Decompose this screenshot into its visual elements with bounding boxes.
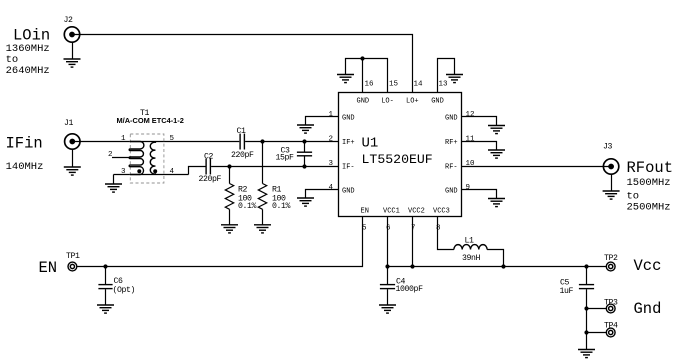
svg-text:RFout: RFout — [627, 159, 674, 177]
junction at pin16 top — [360, 56, 364, 60]
svg-text:VCC1: VCC1 — [383, 208, 400, 216]
ground at J2 — [64, 59, 81, 67]
label 1360MHz to 2640MHz — [6, 43, 50, 77]
svg-text:2500MHz: 2500MHz — [627, 202, 671, 214]
ground at Vcc filter — [578, 350, 595, 358]
svg-text:140MHz: 140MHz — [6, 161, 44, 173]
svg-text:to: to — [627, 190, 640, 202]
svg-text:(Opt): (Opt) — [113, 285, 136, 295]
wire T1 pin3 ground stem — [113, 175, 115, 184]
wire C1 to IC pin 2 — [245, 141, 338, 143]
svg-text:2: 2 — [329, 136, 334, 144]
svg-text:TP1: TP1 — [66, 252, 80, 261]
wire RF- pin 10 to J3 — [462, 166, 612, 168]
svg-text:TP2: TP2 — [604, 254, 618, 263]
svg-text:2: 2 — [108, 151, 113, 159]
wire R1 lead — [262, 142, 264, 184]
wire pin 11 to ground — [462, 142, 497, 150]
svg-text:15: 15 — [389, 81, 399, 89]
wire EN net TP1 to pin 5 — [77, 217, 363, 267]
svg-text:R2: R2 — [238, 186, 248, 195]
capacitor C5 — [579, 267, 594, 309]
ground at pin 11 — [488, 150, 505, 158]
svg-text:220pF: 220pF — [231, 151, 254, 160]
wire T1 pin 2 stub — [112, 157, 131, 159]
wire pin 1 to ground — [306, 117, 339, 125]
svg-text:IFin: IFin — [6, 135, 43, 153]
svg-text:220pF: 220pF — [199, 175, 222, 184]
ground at J3 — [603, 191, 620, 199]
wire R2 to ground — [229, 209, 231, 224]
svg-text:2640MHz: 2640MHz — [6, 65, 50, 77]
ground at T1 pin 3 — [105, 184, 122, 192]
junction TP3 — [584, 306, 588, 310]
connector J2 LOin — [64, 16, 80, 42]
junction L1 at rail — [501, 264, 505, 268]
svg-text:0.1%: 0.1% — [238, 202, 257, 211]
capacitor C4 — [380, 267, 395, 305]
svg-text:39nH: 39nH — [462, 254, 481, 263]
svg-text:12: 12 — [466, 111, 475, 119]
svg-text:RF+: RF+ — [445, 139, 458, 147]
svg-text:0.1%: 0.1% — [272, 202, 291, 211]
transformer T1 dashed box — [130, 134, 164, 183]
svg-text:LT5520EUF: LT5520EUF — [362, 152, 433, 167]
svg-text:4: 4 — [170, 168, 175, 176]
svg-text:Vcc: Vcc — [634, 257, 662, 275]
svg-text:LO+: LO+ — [406, 97, 419, 105]
svg-text:GND: GND — [445, 188, 458, 196]
wire J1 to ground stem — [72, 149, 74, 166]
wire TP3 to TP4 — [586, 309, 588, 333]
wire R1 to ground — [262, 209, 264, 224]
ground at pin 9 — [488, 199, 505, 207]
wire pin 4 to ground — [306, 190, 339, 198]
svg-text:TP3: TP3 — [604, 299, 618, 308]
svg-text:GND: GND — [342, 188, 355, 196]
wire TP4 to ground — [586, 333, 588, 350]
wire IF+ top line J1 to C1 — [72, 141, 239, 143]
svg-text:8: 8 — [436, 225, 441, 233]
inductor L1 — [454, 245, 487, 250]
wire pin 6 stub — [387, 217, 389, 267]
svg-text:L1: L1 — [465, 237, 475, 246]
test point TP2 — [604, 254, 618, 271]
svg-text:M/A-COM ETC4-1-2: M/A-COM ETC4-1-2 — [117, 116, 184, 125]
junction C5 top — [584, 264, 588, 268]
svg-text:7: 7 — [411, 225, 416, 233]
svg-text:GND: GND — [357, 97, 370, 105]
test point TP1 — [66, 252, 80, 271]
svg-text:C6: C6 — [114, 277, 124, 286]
svg-text:4: 4 — [329, 184, 334, 192]
wire pin 8 to L1 — [438, 217, 454, 250]
wire pin16/15 gnd net — [346, 59, 388, 93]
resistor R1 — [258, 184, 266, 210]
label R1 — [272, 186, 291, 212]
ground at C4 — [379, 305, 396, 313]
ground at pin 4 — [297, 198, 314, 206]
label R2 — [238, 186, 257, 212]
svg-text:1000pF: 1000pF — [396, 285, 424, 294]
svg-text:U1: U1 — [362, 136, 379, 152]
transformer T1 secondary winding — [150, 142, 155, 175]
svg-text:IF+: IF+ — [342, 139, 355, 147]
label 1500MHz to 2500MHz — [627, 177, 671, 214]
test point TP3 — [604, 299, 618, 313]
ground at pin 13 — [446, 75, 463, 83]
wire pin 7 stub — [412, 217, 414, 267]
svg-text:16: 16 — [365, 81, 375, 89]
ground at R1 — [254, 225, 271, 233]
svg-text:GND: GND — [445, 115, 458, 123]
svg-text:C1: C1 — [237, 127, 247, 136]
wire pin 13 to ground — [438, 59, 455, 93]
wire C2 to IC pin 3 — [211, 166, 338, 168]
svg-text:EN: EN — [361, 208, 369, 216]
svg-text:1: 1 — [329, 111, 334, 119]
junction C3 bottom — [302, 164, 306, 168]
svg-text:3: 3 — [329, 160, 334, 168]
svg-text:GND: GND — [342, 115, 355, 123]
svg-text:J1: J1 — [64, 119, 74, 128]
svg-text:R1: R1 — [272, 186, 282, 195]
wire TP4 stub — [587, 332, 607, 334]
connector J3 RFout — [603, 143, 619, 175]
svg-text:5: 5 — [170, 135, 175, 143]
junction R2 on IF- — [227, 164, 231, 168]
junction TP4 — [584, 330, 588, 334]
svg-text:9: 9 — [466, 184, 471, 192]
wire pin 12 to ground — [462, 117, 497, 126]
ground at pin 12 — [488, 126, 505, 134]
connector J1 IFin — [64, 119, 80, 149]
ground at pins 16/15 — [337, 75, 354, 83]
svg-text:15pF: 15pF — [276, 153, 295, 162]
capacitor C1 — [240, 134, 244, 150]
svg-text:TP4: TP4 — [604, 322, 618, 331]
svg-text:11: 11 — [466, 136, 476, 144]
wire Vcc rail — [388, 266, 607, 268]
test point TP4 — [604, 322, 618, 337]
capacitor C2 — [206, 159, 210, 175]
wire J2 to ground stem — [72, 42, 74, 58]
svg-text:J3: J3 — [603, 143, 613, 152]
wire T1 pin 4 riser — [189, 167, 206, 175]
svg-text:Gnd: Gnd — [634, 300, 662, 318]
svg-text:13: 13 — [439, 81, 449, 89]
svg-text:1: 1 — [121, 135, 126, 143]
svg-text:VCC3: VCC3 — [433, 208, 450, 216]
ground at pin 1 — [297, 125, 314, 133]
junction pin 6 — [385, 264, 389, 268]
resistor R2 — [225, 184, 233, 210]
junction pin 7 — [410, 264, 414, 268]
svg-text:GND: GND — [431, 97, 444, 105]
svg-text:J2: J2 — [64, 16, 74, 25]
svg-text:3: 3 — [121, 168, 126, 176]
junction C6 — [103, 264, 107, 268]
wire LO net: J2 to pin 14 — [72, 35, 413, 93]
svg-text:C2: C2 — [204, 152, 214, 161]
transformer T1 primary winding — [129, 142, 144, 175]
capacitor C3 — [297, 142, 312, 167]
junction R1 on IF+ — [260, 139, 264, 143]
svg-text:VCC2: VCC2 — [408, 208, 425, 216]
T1 phase dot primary — [137, 169, 141, 173]
wire pin 9 to ground — [462, 190, 497, 199]
ground at J1 — [64, 167, 81, 175]
svg-text:14: 14 — [414, 81, 424, 89]
junction C3 top — [302, 139, 306, 143]
svg-text:EN: EN — [39, 259, 58, 277]
svg-text:RF-: RF- — [445, 164, 458, 172]
svg-text:6: 6 — [386, 225, 391, 233]
T1 phase dot secondary — [153, 169, 157, 173]
svg-text:LOin: LOin — [13, 27, 50, 45]
wire J3 to ground stem — [611, 174, 613, 190]
ground at R2 — [221, 225, 238, 233]
svg-text:1500MHz: 1500MHz — [627, 177, 671, 189]
svg-text:IF-: IF- — [342, 164, 355, 172]
wire L1 to Vcc rail — [487, 250, 503, 267]
wire R2 lead — [229, 167, 231, 184]
wire T1 bottom line — [114, 174, 189, 176]
op-amp U1 IC box LT5520EUF — [339, 93, 462, 217]
wire TP3 stub — [587, 308, 607, 310]
ground at C6 — [97, 305, 114, 313]
svg-text:1uF: 1uF — [560, 287, 574, 296]
svg-text:LO-: LO- — [381, 97, 394, 105]
capacitor C6 — [98, 267, 112, 305]
